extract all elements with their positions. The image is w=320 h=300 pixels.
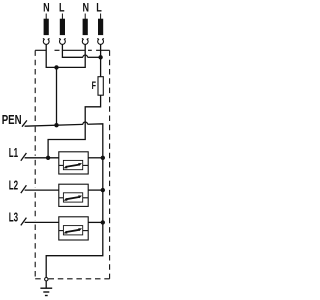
svg-text:N: N (82, 3, 89, 15)
svg-text:F: F (92, 79, 97, 91)
svg-text:L3: L3 (9, 211, 18, 225)
svg-text:L: L (59, 3, 65, 15)
svg-text:N: N (43, 3, 50, 15)
svg-text:L: L (96, 3, 102, 15)
svg-text:L2: L2 (9, 179, 18, 193)
svg-text:L1: L1 (9, 146, 18, 160)
svg-text:PEN: PEN (2, 114, 22, 128)
